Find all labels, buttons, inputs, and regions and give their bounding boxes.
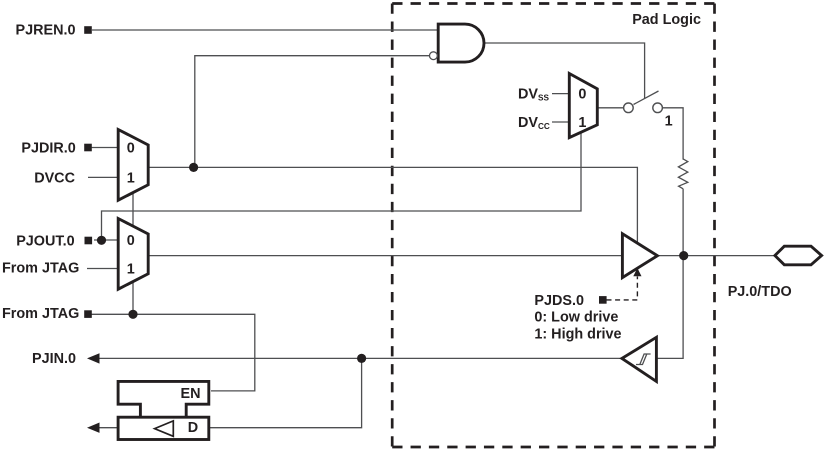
arrowhead PJDS into driver bbox=[633, 268, 641, 276]
svg-text:0: 0 bbox=[127, 233, 135, 249]
D latch box bbox=[118, 417, 209, 439]
svg-text:0: 0 bbox=[127, 140, 135, 156]
hysteresis symbol bbox=[636, 354, 651, 365]
pad hexagon PJ.0/TDO bbox=[775, 246, 822, 265]
dashed Pad Logic border bbox=[392, 2, 714, 5]
junction dot node A bbox=[189, 163, 198, 172]
wire PJDIR.0 into mux1 pin 0 bbox=[92, 147, 120, 149]
wire PJDS.0 dashed control bbox=[607, 277, 638, 300]
wire driver output to pad bbox=[658, 255, 775, 257]
wire node C down to D latch bbox=[210, 358, 362, 427]
wire resistor to pad node and Schmitt input bbox=[658, 189, 684, 359]
D latch clock triangle bbox=[155, 421, 174, 436]
terminal square PJDS.0 bbox=[599, 296, 607, 304]
wire PJREN.0 to AND input bbox=[92, 29, 440, 31]
svg-text:1: 1 bbox=[127, 170, 135, 186]
svg-text:PJOUT.0: PJOUT.0 bbox=[16, 233, 74, 249]
svg-text:From JTAG: From JTAG bbox=[2, 306, 79, 322]
svg-text:D: D bbox=[188, 420, 198, 436]
resistor R1 bbox=[678, 159, 687, 189]
svg-text:0: 0 bbox=[578, 87, 586, 103]
wire node A vertical to AND inverted input bbox=[195, 56, 429, 168]
wire mux2 output to driver input bbox=[148, 255, 623, 257]
mux U3 PJOUT/FromJTAG bbox=[118, 219, 148, 290]
wire DVss into mux3 pin 0 bbox=[552, 93, 570, 95]
svg-text:1: 1 bbox=[127, 262, 135, 278]
junction dot PJIN tap bbox=[357, 354, 366, 363]
svg-text:DVSS: DVSS bbox=[518, 87, 549, 103]
wire select line From JTAG to mux selects bbox=[132, 190, 134, 314]
svg-text:PJREN.0: PJREN.0 bbox=[16, 23, 76, 39]
switch contact circle right bbox=[653, 103, 663, 113]
mux U4 DVss/DVcc bbox=[569, 74, 597, 138]
wire node B up to pull mux select bbox=[102, 131, 582, 240]
svg-text:From JTAG: From JTAG bbox=[2, 261, 79, 277]
terminal square From JTAG bbox=[84, 310, 92, 318]
AND gate input bubble bbox=[430, 52, 438, 60]
terminal square PJOUT.0 bbox=[85, 237, 93, 245]
switch contact circle left bbox=[624, 103, 634, 113]
terminal square PJREN.0 bbox=[84, 26, 92, 34]
mux U2 PJDIR/DVCC bbox=[118, 130, 148, 201]
svg-text:Pad Logic: Pad Logic bbox=[632, 12, 701, 28]
svg-text:EN: EN bbox=[181, 386, 201, 402]
wire DVcc into mux3 pin 1 bbox=[552, 121, 570, 123]
arrowhead D latch output bbox=[87, 423, 100, 433]
svg-text:DVCC: DVCC bbox=[518, 115, 550, 131]
terminal square PJDIR.0 bbox=[84, 144, 92, 152]
junction dot pad node bbox=[679, 251, 688, 260]
AND gate U1 bbox=[438, 24, 484, 62]
wire PJOUT.0 into mux2 pin 0 bbox=[94, 239, 120, 241]
svg-text:PJ.0/TDO: PJ.0/TDO bbox=[728, 284, 792, 300]
wire mux3 output to switch bbox=[597, 107, 624, 109]
junction dot node B bbox=[97, 236, 106, 245]
junction dot select/FromJTAG bbox=[128, 310, 137, 319]
svg-text:PJDIR.0: PJDIR.0 bbox=[21, 141, 75, 157]
svg-text:1: 1 bbox=[578, 115, 586, 131]
svg-text:1: 1 bbox=[665, 114, 673, 130]
switch SW1 lever bbox=[634, 91, 659, 105]
EN latch box bbox=[118, 381, 209, 417]
wire mux1 output to driver enable bbox=[148, 167, 637, 243]
wire switch to resistor bbox=[663, 108, 684, 160]
svg-text:PJIN.0: PJIN.0 bbox=[32, 351, 76, 367]
wire From JTAG into mux2 pin 1 bbox=[87, 268, 120, 270]
wire PJIN.0 from Schmitt output bbox=[97, 357, 621, 359]
svg-text:1: High drive: 1: High drive bbox=[534, 326, 621, 342]
svg-text:PJDS.0: PJDS.0 bbox=[534, 293, 584, 309]
Schmitt trigger input buffer U6 bbox=[622, 337, 657, 381]
wire D latch output arrow wire bbox=[97, 427, 119, 429]
wire AND output to switch lever bbox=[484, 43, 645, 99]
svg-text:0: Low drive: 0: Low drive bbox=[534, 309, 618, 325]
wire From JTAG to EN latch bbox=[92, 314, 255, 391]
arrowhead PJIN.0 bbox=[87, 353, 100, 363]
wire DVCC into mux1 pin 1 bbox=[88, 176, 120, 178]
svg-text:DVCC: DVCC bbox=[34, 171, 75, 187]
output driver buffer U5 bbox=[622, 234, 657, 278]
